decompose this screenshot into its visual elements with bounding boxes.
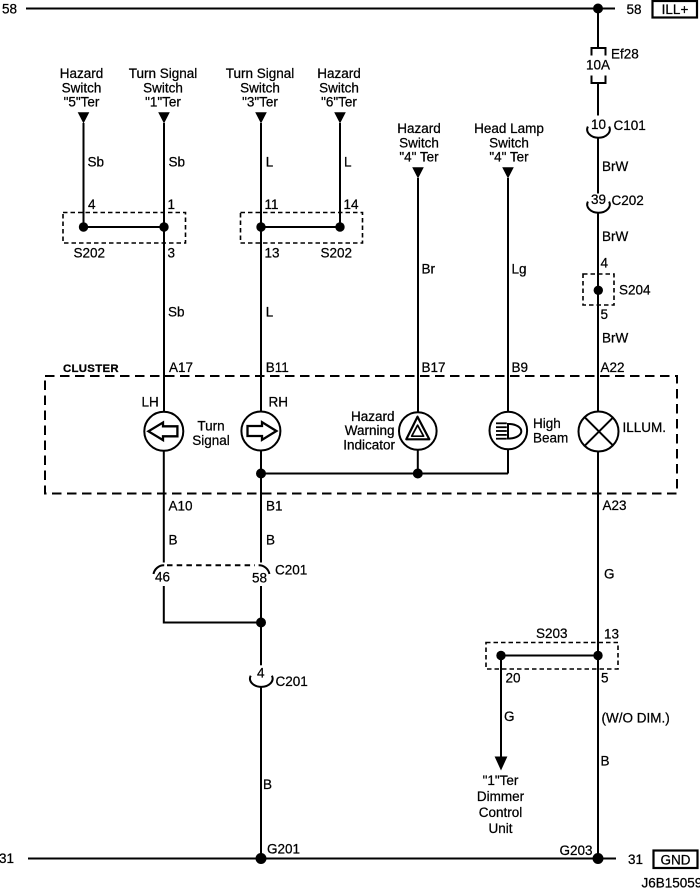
svg-text:13: 13 bbox=[265, 246, 280, 261]
node S202 right pin14 bbox=[335, 222, 344, 231]
svg-text:1: 1 bbox=[168, 197, 176, 212]
svg-text:S204: S204 bbox=[619, 283, 651, 298]
node junction at 622 bbox=[256, 618, 266, 628]
svg-text:3: 3 bbox=[168, 246, 176, 261]
wire RH lamp down to C201-58 bbox=[260, 451, 262, 563]
node bus at RH bbox=[256, 469, 266, 479]
svg-text:Switch: Switch bbox=[240, 80, 280, 95]
wire B9 pin to high beam lamp bbox=[507, 376, 509, 412]
svg-text:Turn: Turn bbox=[197, 419, 224, 434]
svg-text:Indicator: Indicator bbox=[343, 437, 395, 452]
icon hazard outer triangle bbox=[406, 417, 429, 440]
wire high beam lamp to bus bbox=[507, 449, 509, 473]
svg-text:L: L bbox=[266, 305, 274, 320]
wire A22 pin to illum lamp bbox=[597, 376, 599, 412]
svg-text:(W/O DIM.): (W/O DIM.) bbox=[602, 711, 670, 726]
wire col6 head lamp switch 4 bbox=[507, 178, 509, 376]
svg-text:Unit: Unit bbox=[488, 821, 512, 836]
icon high beam lamp D bbox=[508, 424, 521, 439]
svg-text:L: L bbox=[344, 155, 352, 170]
wire fuse to C101 bbox=[597, 83, 599, 116]
svg-text:RH: RH bbox=[269, 395, 289, 410]
icon LH left arrow bbox=[148, 423, 177, 441]
svg-text:4: 4 bbox=[257, 666, 265, 681]
svg-text:BrW: BrW bbox=[602, 159, 629, 174]
svg-text:Turn Signal: Turn Signal bbox=[226, 66, 295, 81]
terminal triangle col4 bbox=[334, 112, 346, 123]
svg-text:G203: G203 bbox=[560, 843, 593, 858]
wire A17 pin to LH lamp bbox=[163, 376, 165, 412]
svg-text:Dimmer: Dimmer bbox=[477, 789, 525, 804]
svg-text:A17: A17 bbox=[169, 360, 193, 375]
svg-text:58: 58 bbox=[252, 571, 267, 586]
svg-text:S203: S203 bbox=[536, 626, 568, 641]
node S202 right pin11/13 bbox=[256, 222, 265, 231]
svg-text:B: B bbox=[266, 533, 275, 548]
wire S203 bus bbox=[501, 655, 598, 657]
svg-text:A10: A10 bbox=[169, 499, 193, 514]
terminal triangle col5 bbox=[412, 167, 424, 178]
svg-text:Turn Signal: Turn Signal bbox=[129, 66, 198, 81]
svg-text:L: L bbox=[266, 155, 274, 170]
svg-text:A22: A22 bbox=[601, 360, 625, 375]
svg-text:10A: 10A bbox=[586, 58, 610, 73]
svg-text:20: 20 bbox=[506, 671, 521, 686]
svg-text:4: 4 bbox=[601, 256, 609, 271]
svg-text:13: 13 bbox=[604, 627, 619, 642]
svg-text:B17: B17 bbox=[422, 360, 446, 375]
ILL+ box bbox=[653, 1, 698, 18]
wire fuse feed bbox=[597, 9, 599, 49]
wire col3 turn signal switch 3 bbox=[260, 123, 262, 376]
svg-text:Sb: Sb bbox=[88, 155, 105, 170]
wire C101 to C202 BrW bbox=[597, 138, 599, 194]
wire S203 to dimmer arrow bbox=[500, 656, 502, 758]
svg-text:Hazard: Hazard bbox=[60, 66, 104, 81]
svg-text:Sb: Sb bbox=[168, 305, 185, 320]
wire hazard lamp to bus bbox=[417, 450, 419, 474]
svg-text:A23: A23 bbox=[603, 498, 627, 513]
wire B11 pin to RH lamp bbox=[260, 376, 262, 412]
svg-text:G: G bbox=[604, 567, 615, 582]
svg-text:G201: G201 bbox=[267, 842, 300, 857]
lamp RH turn signal circle bbox=[241, 412, 280, 451]
svg-text:Switch: Switch bbox=[143, 80, 183, 95]
svg-text:14: 14 bbox=[344, 197, 360, 212]
svg-text:Head Lamp: Head Lamp bbox=[474, 121, 544, 136]
node S203 pin20 bbox=[496, 651, 505, 660]
icon ILLUM X bbox=[585, 417, 613, 445]
svg-text:C201: C201 bbox=[275, 563, 307, 578]
node S203 pin13/5 bbox=[593, 651, 602, 660]
node S204 splice dot bbox=[594, 286, 603, 295]
svg-text:C101: C101 bbox=[614, 118, 646, 133]
svg-text:5: 5 bbox=[601, 671, 609, 686]
svg-text:B: B bbox=[169, 533, 178, 548]
wire C201-4 down to G201 bbox=[260, 687, 262, 859]
svg-text:B9: B9 bbox=[512, 360, 529, 375]
svg-text:S202: S202 bbox=[321, 246, 353, 261]
node top rail junction bbox=[593, 4, 603, 14]
wire col2 turn signal switch 1 bbox=[163, 123, 165, 376]
wire illum lamp down to S203 bbox=[597, 452, 599, 859]
wire col1 hazard switch 5 bbox=[83, 123, 85, 227]
svg-text:"1"Ter: "1"Ter bbox=[145, 95, 181, 110]
wire top rail 58 bbox=[26, 8, 615, 10]
svg-text:LH: LH bbox=[142, 395, 159, 410]
arrow dimmer control bbox=[495, 757, 508, 771]
svg-text:B: B bbox=[263, 777, 272, 792]
wire LH lamp down to C201-46 bbox=[163, 451, 165, 563]
node S202 left pin4 bbox=[79, 222, 88, 231]
svg-text:BrW: BrW bbox=[602, 331, 629, 346]
connector C201 pin 4 arc bbox=[250, 676, 273, 687]
svg-text:Lg: Lg bbox=[512, 262, 527, 277]
svg-text:Ef28: Ef28 bbox=[611, 47, 639, 62]
svg-text:C201: C201 bbox=[276, 674, 308, 689]
icon hazard inner triangle bbox=[412, 425, 424, 436]
terminal triangle col1 bbox=[78, 112, 90, 123]
lamp LH turn signal circle bbox=[144, 412, 183, 451]
wire B17 pin to hazard lamp bbox=[417, 376, 419, 413]
wire C201 dashed link bbox=[167, 564, 255, 566]
terminal triangle col3 bbox=[255, 112, 267, 123]
svg-text:BrW: BrW bbox=[602, 229, 629, 244]
GND box bbox=[654, 851, 698, 869]
svg-text:Hazard: Hazard bbox=[317, 66, 361, 81]
svg-text:Hazard: Hazard bbox=[351, 409, 395, 424]
svg-text:B1: B1 bbox=[266, 499, 283, 514]
svg-text:B: B bbox=[601, 754, 610, 769]
svg-text:"5"Ter: "5"Ter bbox=[64, 95, 100, 110]
node G203 bbox=[593, 853, 604, 864]
svg-text:31: 31 bbox=[628, 852, 643, 867]
lamp hazard warning indicator circle bbox=[399, 412, 437, 450]
wire C202 to S204 BrW bbox=[597, 213, 599, 377]
splice S203 box bbox=[486, 643, 618, 670]
terminal triangle col6 bbox=[502, 167, 514, 178]
icon high beam rays bbox=[496, 422, 507, 424]
svg-text:ILL+: ILL+ bbox=[662, 2, 689, 17]
wire S202 left bus bbox=[84, 226, 165, 228]
svg-text:Signal: Signal bbox=[192, 433, 230, 448]
svg-text:"1"Ter: "1"Ter bbox=[483, 773, 519, 788]
svg-text:Hazard: Hazard bbox=[397, 121, 441, 136]
fuse Ef28 10A bbox=[592, 48, 606, 56]
svg-text:S202: S202 bbox=[74, 246, 106, 261]
splice S202 left box bbox=[63, 213, 186, 244]
splice S204 box bbox=[583, 274, 614, 305]
connector C201 pin 46 arc bbox=[154, 565, 165, 574]
svg-text:Beam: Beam bbox=[533, 430, 568, 445]
svg-text:Switch: Switch bbox=[62, 80, 102, 95]
svg-text:"4" Ter: "4" Ter bbox=[489, 150, 529, 165]
lamp high beam circle bbox=[490, 412, 528, 450]
svg-text:11: 11 bbox=[265, 197, 279, 212]
svg-text:Switch: Switch bbox=[489, 135, 529, 150]
wire S202 right bus bbox=[261, 226, 340, 228]
wire cluster bus bbox=[261, 473, 508, 475]
wire C201-58 down bbox=[260, 586, 262, 665]
node bus at hazard bbox=[413, 469, 423, 479]
svg-text:"4" Ter: "4" Ter bbox=[399, 150, 439, 165]
node S202 left pin1/3 bbox=[159, 222, 168, 231]
wire col4 hazard switch 6 bbox=[339, 123, 341, 227]
connector C201 pin 58 arc bbox=[259, 565, 270, 574]
wire C201-46 down and over bbox=[164, 586, 261, 623]
svg-text:G: G bbox=[504, 709, 515, 724]
svg-text:10: 10 bbox=[591, 117, 606, 132]
splice S202 right box bbox=[241, 213, 363, 244]
connector C101 pin 10 arc bbox=[587, 127, 610, 138]
svg-text:Br: Br bbox=[422, 262, 436, 277]
svg-text:Control: Control bbox=[479, 805, 523, 820]
svg-text:5: 5 bbox=[601, 307, 609, 322]
svg-text:58: 58 bbox=[627, 2, 642, 17]
svg-text:C202: C202 bbox=[612, 193, 644, 208]
svg-text:GND: GND bbox=[661, 853, 691, 868]
svg-text:High: High bbox=[533, 416, 561, 431]
svg-text:Switch: Switch bbox=[319, 80, 359, 95]
icon RH right arrow bbox=[248, 422, 277, 440]
lamp ILLUM circle bbox=[579, 412, 619, 452]
cluster box bbox=[45, 376, 677, 494]
connector C202 pin 39 arc bbox=[587, 202, 610, 213]
svg-text:"6"Ter: "6"Ter bbox=[321, 95, 357, 110]
svg-text:4: 4 bbox=[88, 197, 96, 212]
svg-text:58: 58 bbox=[2, 2, 17, 17]
svg-text:31: 31 bbox=[0, 851, 14, 866]
svg-text:B11: B11 bbox=[266, 360, 289, 375]
svg-text:CLUSTER: CLUSTER bbox=[63, 363, 119, 375]
svg-text:39: 39 bbox=[591, 192, 606, 207]
svg-text:"3"Ter: "3"Ter bbox=[242, 95, 278, 110]
svg-text:Switch: Switch bbox=[399, 135, 439, 150]
terminal triangle col2 bbox=[158, 112, 170, 123]
svg-text:Sb: Sb bbox=[169, 155, 186, 170]
wire col5 hazard switch 4 bbox=[417, 178, 419, 376]
svg-text:Warning: Warning bbox=[345, 423, 395, 438]
wire bottom rail 31 bbox=[28, 858, 616, 860]
svg-text:46: 46 bbox=[155, 570, 170, 585]
svg-text:ILLUM.: ILLUM. bbox=[623, 420, 667, 435]
svg-text:J6B15059: J6B15059 bbox=[642, 876, 700, 891]
node G201 bbox=[256, 853, 267, 864]
